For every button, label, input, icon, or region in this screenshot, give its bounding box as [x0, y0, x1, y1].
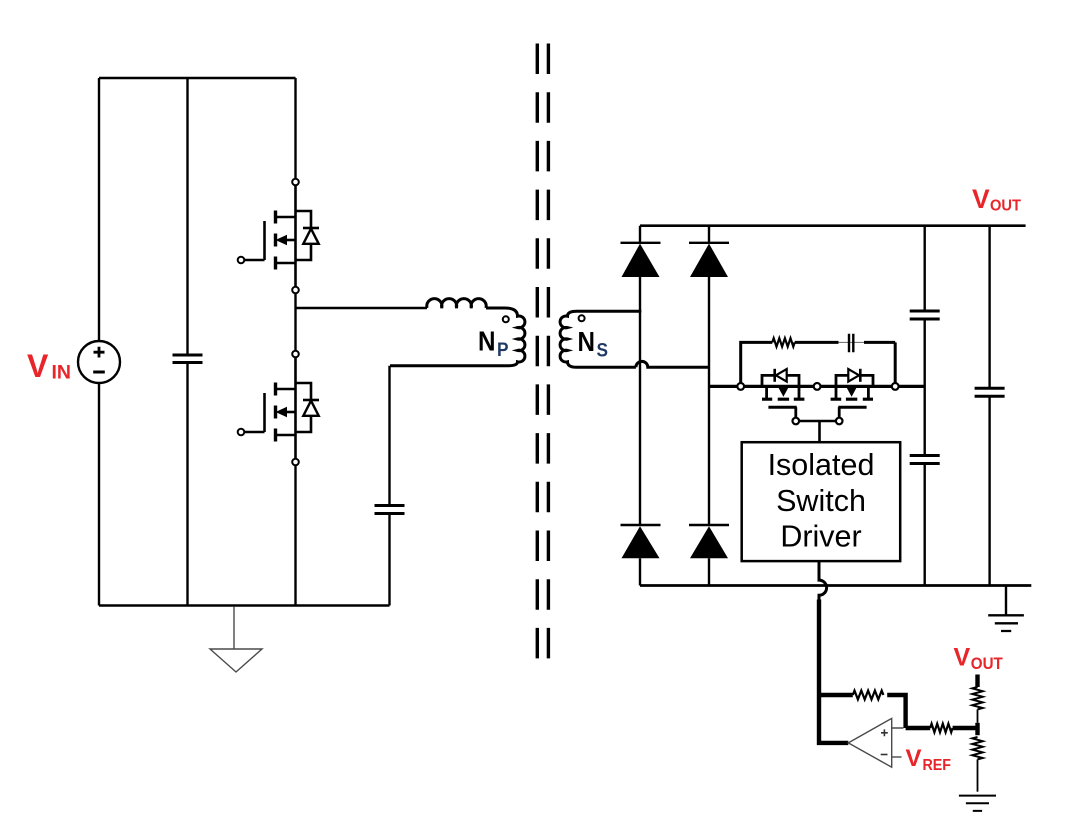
transistor Q1 (high-side MOSFET)	[238, 179, 319, 294]
wire bottom rail primary side	[99, 604, 390, 606]
wire left rail lower	[98, 383, 100, 606]
wire input resistor to divider node	[953, 726, 978, 730]
wire Q1 drain	[294, 78, 296, 179]
ground secondary right	[1005, 586, 1007, 616]
capacitor C3 snubber	[795, 342, 896, 386]
svg-text:N: N	[478, 326, 496, 357]
svg-text:REF: REF	[923, 757, 952, 774]
transistor Q4 (sync switch right)	[831, 369, 873, 425]
capacitor C5 output rail A lower	[910, 456, 940, 464]
capacitor C6 output rail B	[988, 226, 990, 586]
op-amp U2 error amplifier	[848, 718, 901, 767]
isolation barrier dashed lines	[537, 44, 548, 663]
resistor R3 divider upper	[972, 687, 982, 709]
svg-text:IN: IN	[52, 362, 72, 384]
source VIN	[78, 341, 120, 383]
wire feedback loop top	[819, 693, 853, 697]
node divider tap	[975, 723, 979, 735]
resistor R4 divider lower	[972, 737, 982, 759]
svg-text:V: V	[27, 348, 49, 384]
svg-text:OUT: OUT	[971, 655, 1003, 673]
svg-text:S: S	[597, 340, 609, 362]
resistor R2 feedback	[853, 691, 884, 700]
wire bottom rail secondary ground	[640, 584, 1031, 587]
svg-text:Switch: Switch	[776, 484, 866, 518]
capacitor C4 output rail A	[924, 226, 926, 586]
inductor L1 resonant	[427, 299, 486, 308]
wire node SW to Q2 drain	[294, 308, 296, 351]
svg-text:V: V	[954, 644, 971, 672]
wire sync switch net	[709, 385, 925, 388]
wire driver to feedback with hop over ground rail	[819, 561, 827, 601]
wire left rail upper	[98, 78, 100, 341]
node primary phase dot	[503, 316, 509, 322]
transformer primary winding NP	[390, 308, 525, 366]
wire top rail primary side	[99, 77, 296, 79]
node SW branch to transformer	[296, 307, 428, 309]
ground chassis (primary)	[210, 607, 262, 672]
driver box U1 Isolated Switch Driver	[742, 442, 901, 561]
svg-text:Driver: Driver	[780, 520, 861, 554]
diode D1	[621, 242, 661, 244]
svg-text:Isolated: Isolated	[768, 448, 875, 482]
svg-text:N: N	[578, 326, 596, 357]
wire top rail VOUT	[640, 224, 1026, 227]
transistor Q2 (low-side MOSFET)	[238, 351, 319, 466]
transformer secondary winding NS	[560, 311, 641, 367]
wire secondary bottom with hop over rectifier leg	[636, 361, 709, 367]
wire Q1 source to node SW	[294, 293, 296, 308]
wire op-amp output	[819, 695, 848, 743]
svg-text:V: V	[972, 184, 990, 214]
diode D4	[689, 524, 729, 526]
ground divider	[959, 796, 996, 811]
wire VOUT stub to divider	[975, 675, 979, 688]
transistor Q3 (sync switch left)	[762, 369, 804, 425]
wire divider middle	[977, 709, 979, 722]
resistor R1 snubber	[741, 342, 773, 386]
resistor R5 input	[930, 724, 952, 733]
wire rectifier leg 2	[708, 226, 710, 586]
diode D2	[689, 242, 729, 244]
wire rectifier leg 1	[639, 226, 641, 586]
wire divider to ground	[977, 759, 979, 791]
wire feedback corner to plus input	[887, 695, 905, 728]
svg-text:P: P	[497, 339, 509, 361]
node sync net terminals	[737, 383, 744, 390]
wire plus input lead	[892, 727, 904, 729]
svg-text:V: V	[906, 745, 922, 772]
capacitor C1 input rail	[186, 78, 188, 606]
wire Q2 source to bottom rail	[294, 465, 296, 605]
wire plus input to divider	[906, 726, 931, 730]
diode D3	[621, 524, 661, 526]
node secondary phase dot	[579, 315, 585, 321]
capacitor C2 dc-block	[388, 366, 390, 606]
wire gate net to driver	[799, 421, 836, 442]
svg-text:OUT: OUT	[990, 198, 1021, 215]
